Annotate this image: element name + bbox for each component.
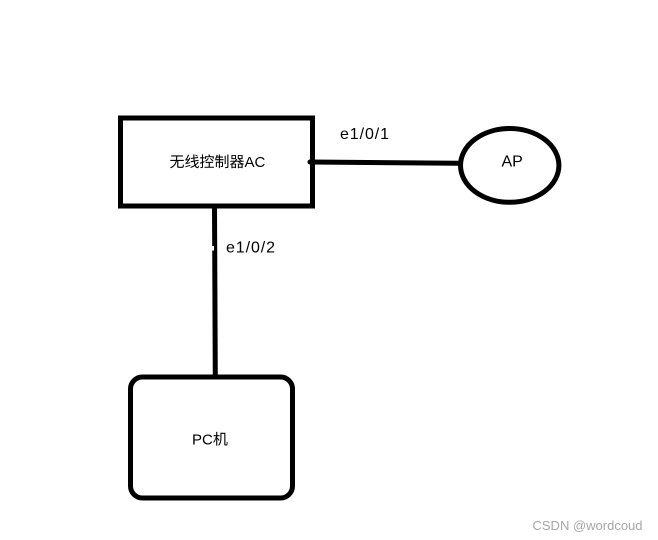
label: PC机: [192, 432, 228, 449]
ellipse: AP node: [461, 129, 559, 203]
node label e1/0/1: [340, 126, 390, 143]
label: AP: [502, 154, 523, 171]
label: 无线控制器AC: [170, 154, 265, 171]
box: PC: [131, 377, 293, 498]
wire e1/0/2 (AC bottom to PC top): [212, 206, 215, 377]
svg-text:CSDN @wordcoud: CSDN @wordcoud: [533, 518, 643, 533]
wire e1/0/1 (AC right edge to AP ellipse): [310, 162, 458, 163]
svg-text:e1/0/1: e1/0/1: [340, 126, 390, 143]
svg-text:AC: AC: [245, 154, 266, 171]
box: wireless controller AC: [121, 118, 313, 206]
svg-text:AP: AP: [502, 154, 523, 171]
node label e1/0/2: [226, 240, 276, 257]
svg-text:e1/0/2: e1/0/2: [226, 240, 276, 257]
svg-text:PC: PC: [192, 432, 213, 449]
watermark: CSDN @wordcoud: [533, 518, 643, 533]
